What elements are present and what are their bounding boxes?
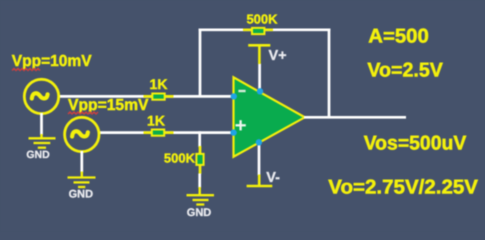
svg-text:Vpp=15mV: Vpp=15mV (68, 97, 149, 114)
wire: node at R3 top (198, 131, 201, 147)
resistor R4 1K (144, 130, 174, 136)
svg-text:GND: GND (187, 207, 212, 219)
non-inverting input marker + (236, 124, 246, 126)
ground GND1 (29, 134, 56, 148)
svg-text:500K: 500K (246, 11, 278, 26)
svg-text:V+: V+ (269, 48, 287, 64)
resistor R3 500K (to ground) (196, 146, 203, 174)
wire: V1 to ground (40, 113, 43, 135)
wire: source V1 to inverting input (59, 95, 233, 98)
inverting input marker - (238, 90, 245, 92)
wire: output (304, 116, 406, 119)
V+ power flag (248, 44, 270, 89)
svg-text:Vos=500uV: Vos=500uV (364, 132, 467, 154)
source V1 (Vpp=10mV) (24, 79, 58, 113)
spellcheck squiggle under Vpp (V1) (12, 69, 40, 71)
ground GND2 (68, 172, 96, 188)
wire: V2 to ground (80, 151, 83, 173)
resistor R2 500K (feedback) (243, 28, 273, 34)
pin: non-inverting input (230, 129, 236, 135)
source V2 (Vpp=15mV) (65, 117, 99, 151)
svg-text:GND: GND (26, 149, 50, 161)
spellcheck squiggle under Vpp (V2) (68, 112, 98, 114)
svg-text:V-: V- (266, 170, 280, 186)
svg-text:A=500: A=500 (368, 25, 429, 47)
svg-text:GND: GND (69, 189, 94, 201)
op-amp U1 (234, 77, 305, 156)
svg-text:Vo=2.5V: Vo=2.5V (367, 59, 443, 81)
wire: feedback right vertical (328, 29, 331, 118)
pin: V- supply (256, 139, 262, 145)
svg-text:Vo=2.75V/2.25V: Vo=2.75V/2.25V (328, 177, 478, 199)
ground GND3 (187, 187, 215, 205)
pin: V+ supply (257, 88, 263, 94)
svg-text:1K: 1K (147, 113, 165, 129)
wire: feedback top horizontal (199, 28, 331, 31)
svg-text:1K: 1K (150, 76, 168, 92)
resistor R1 1K (144, 94, 174, 100)
svg-text:500K: 500K (164, 151, 196, 166)
V- power flag (247, 144, 273, 186)
wire: source V2 to non-inverting input (99, 131, 233, 134)
wire: R3 bottom to ground (198, 174, 201, 189)
pin: inverting input (231, 93, 237, 99)
svg-text:Vpp=10mV: Vpp=10mV (12, 53, 92, 70)
wire: feedback left vertical (199, 29, 202, 97)
